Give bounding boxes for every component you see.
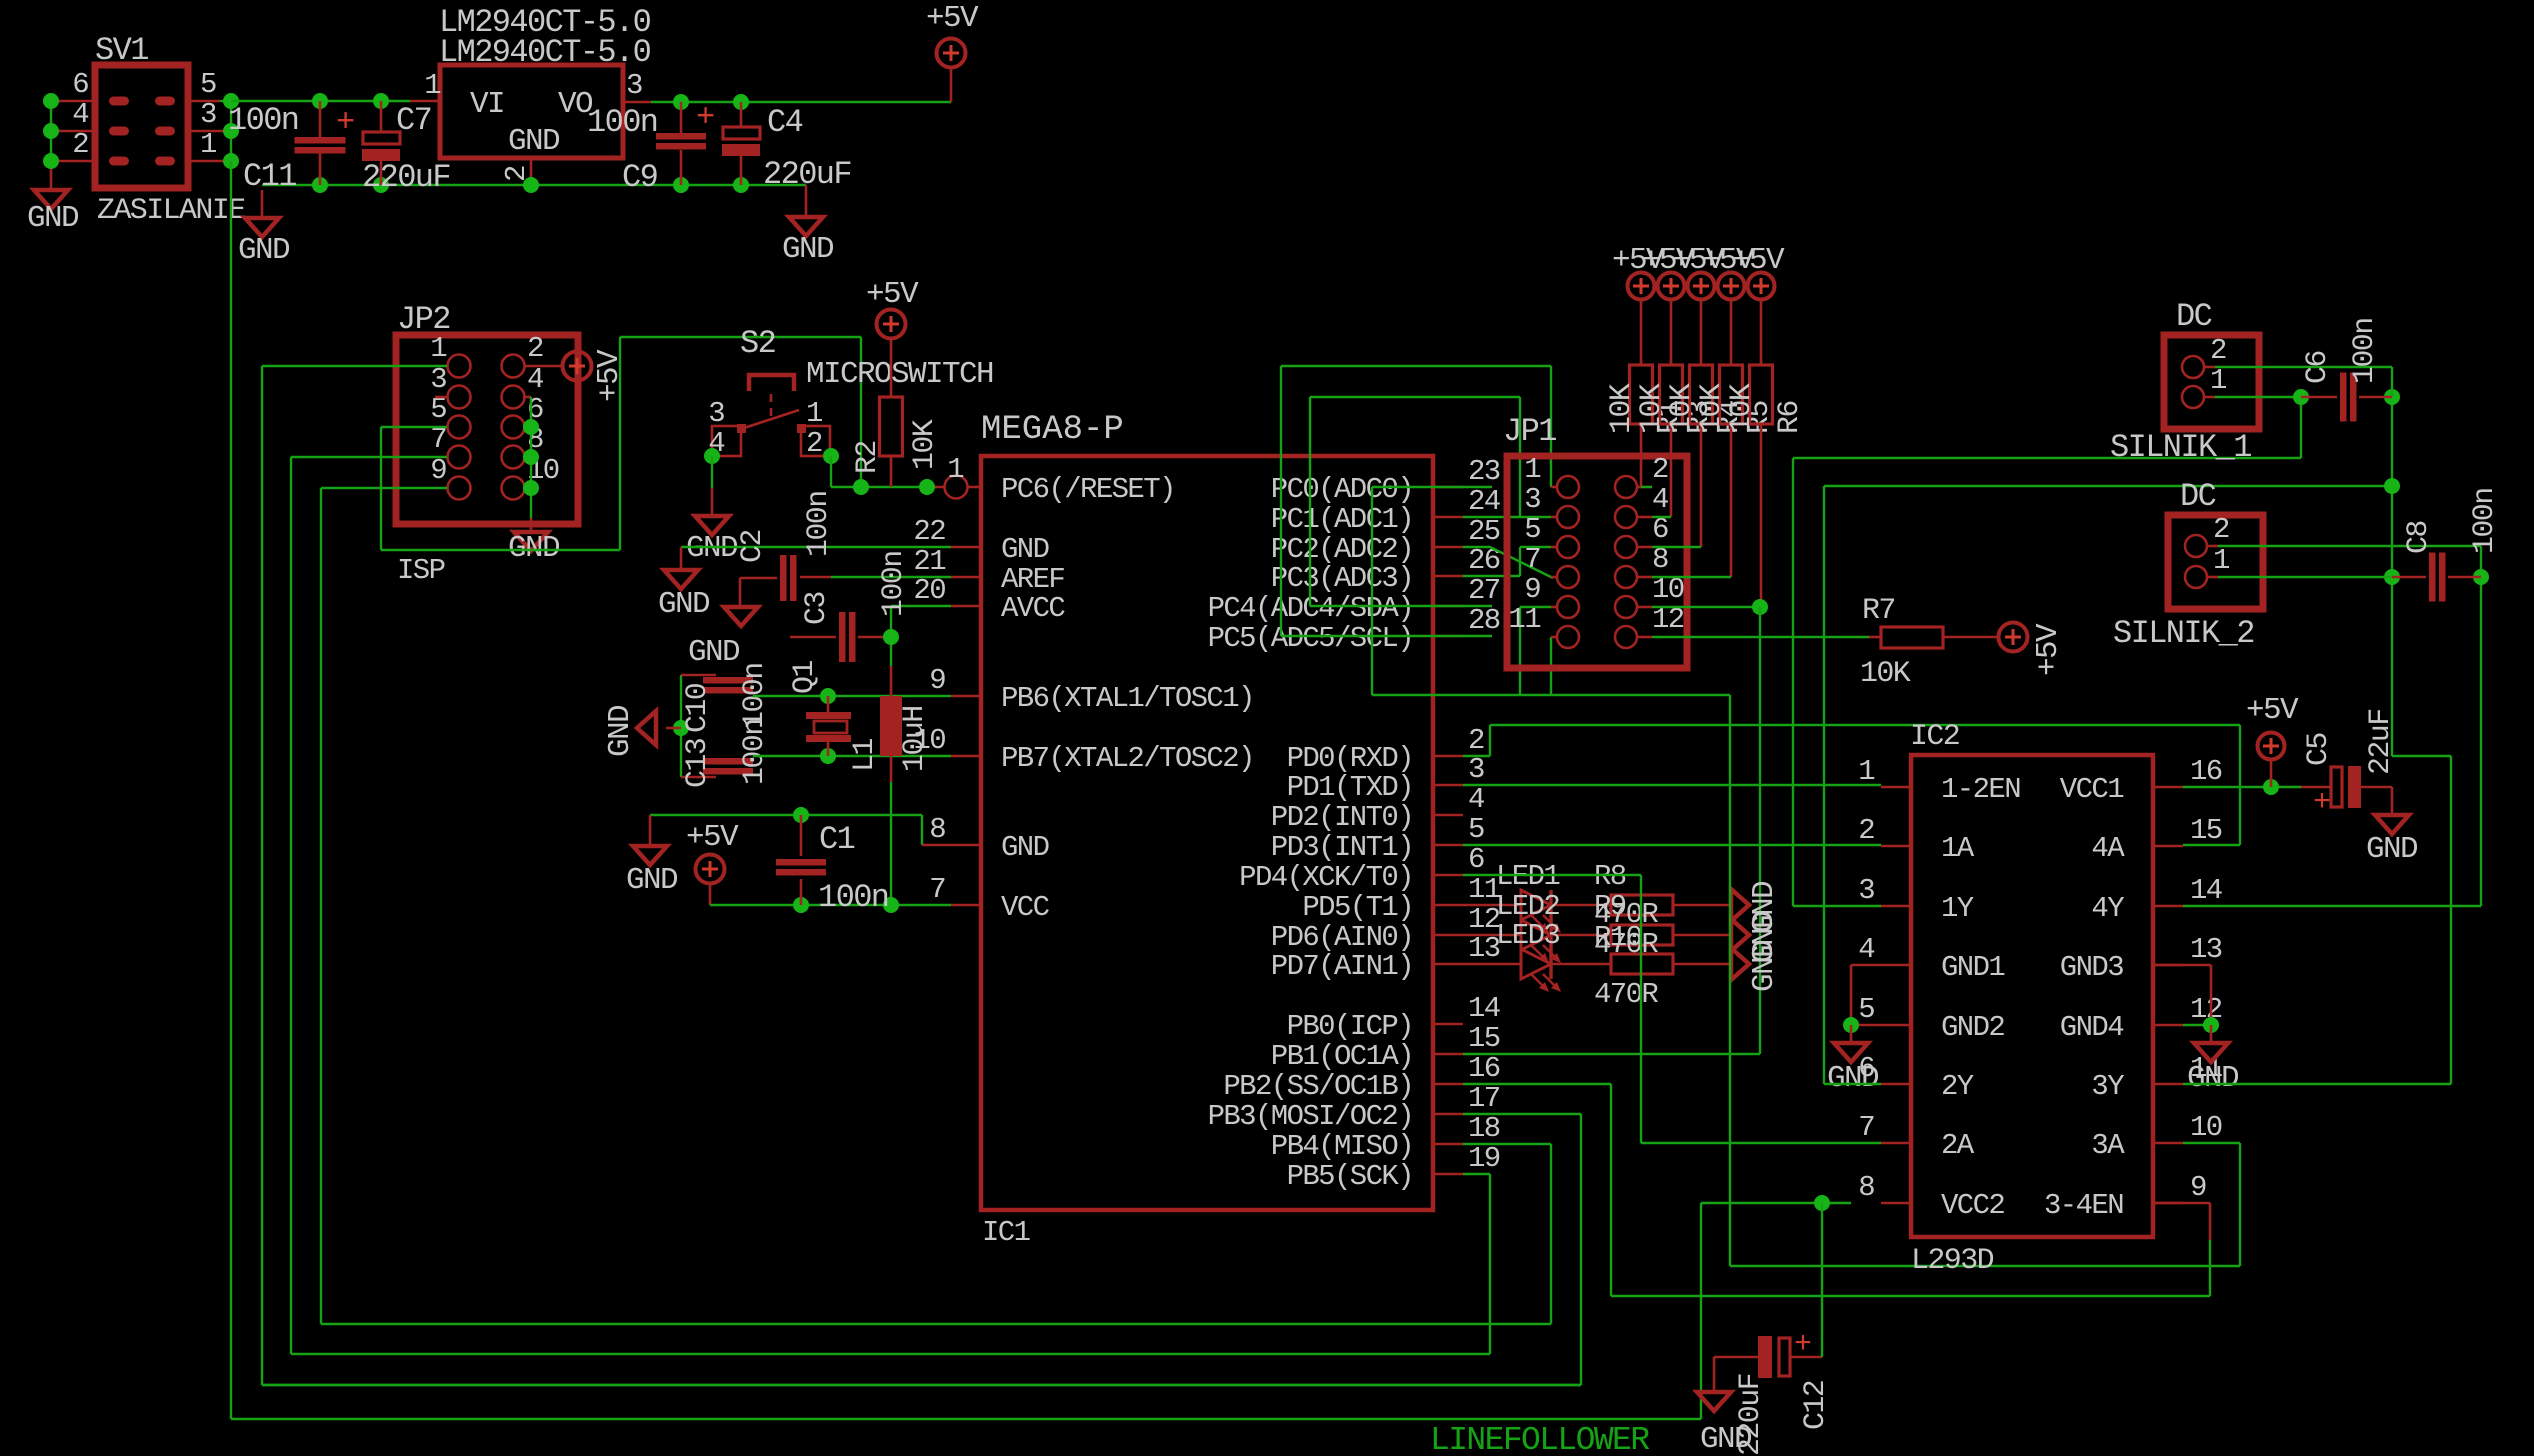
svg-text:14: 14 [2190,874,2222,907]
svg-text:3: 3 [1468,753,1484,786]
wire JP1 pin11 drop [1550,637,1552,695]
wire SILNIK_2 pin2 [2207,545,2218,548]
resistor R10 470R [1551,963,1611,966]
IC1 left pin AREF (21) [951,576,981,579]
svg-text:GND: GND [686,531,738,566]
svg-text:ZASILANIE: ZASILANIE [97,194,245,228]
IC2 left pin 2Y (6) [1881,1083,1911,1086]
svg-text:VCC2: VCC2 [1941,1189,2004,1222]
svg-text:+: + [696,99,714,136]
wire IC1 GND pin22 row [681,546,951,548]
IC1 right pin PD1(TXD) (3) [1433,784,1463,787]
svg-text:2A: 2A [1941,1129,1975,1162]
svg-text:+: + [2313,786,2330,820]
svg-text:C8: C8 [2402,521,2436,554]
svg-text:4Y: 4Y [2091,892,2124,925]
ground GND (C11 area) [245,218,279,237]
svg-text:4: 4 [1468,783,1484,816]
wire 2Y to SILNIK_1 pin2 net [1824,1083,1881,1085]
svg-text:220uF: 220uF [763,156,851,193]
ground GND (C12) [1697,1392,1731,1411]
IC1 right pin PD6(AIN0) (12) [1433,934,1463,937]
svg-text:GND: GND [27,201,79,236]
svg-text:8: 8 [1858,1171,1874,1204]
svg-text:GND4: GND4 [2060,1011,2123,1044]
IC1 right pin PB3(MOSI/OC2) (17) [1433,1113,1463,1116]
svg-text:C5: C5 [2302,733,2336,766]
svg-text:PB6(XTAL1/TOSC1): PB6(XTAL1/TOSC1) [1001,682,1254,715]
svg-text:VCC1: VCC1 [2060,773,2123,806]
supply +5V (pullup R6) [1748,273,1775,300]
LED LED3 [1463,963,1521,966]
svg-text:PC6(/RESET): PC6(/RESET) [1001,473,1175,506]
svg-text:3: 3 [626,69,642,102]
svg-text:JP1: JP1 [1503,413,1556,450]
svg-text:1: 1 [2213,544,2229,577]
svg-text:C2: C2 [736,530,770,563]
svg-text:3Y: 3Y [2091,1070,2124,1103]
svg-text:100n: 100n [877,551,911,617]
svg-text:PC1(ADC1): PC1(ADC1) [1271,503,1413,536]
wire PC0 branch down [1371,487,1373,695]
svg-text:470R: 470R [1594,978,1658,1011]
svg-text:VI: VI [470,87,504,122]
svg-text:1: 1 [2210,364,2226,397]
svg-text:C7: C7 [396,102,431,139]
svg-text:100n: 100n [2468,488,2502,554]
svg-text:4: 4 [527,363,543,396]
wire PB2 to 3-4EN [1463,1083,1611,1085]
svg-text:1: 1 [1858,755,1874,788]
IC2 right pin 3A (10) [2153,1142,2183,1145]
svg-text:PD3(INT1): PD3(INT1) [1271,831,1413,864]
svg-text:3: 3 [1524,483,1540,516]
svg-text:+: + [336,104,354,141]
svg-text:PC0(ADC0): PC0(ADC0) [1271,473,1413,506]
resistor R4 10K [1700,299,1703,365]
LED LED1 [1463,904,1521,907]
resistor R3 10K [1670,299,1673,365]
svg-text:1-2EN: 1-2EN [1941,773,2020,806]
wire PC3 to pin5 route [1463,575,1520,577]
wire PD3 to 1A [1463,844,1881,846]
IC1 right pin PB5(SCK) (19) [1433,1173,1463,1176]
wire GND3/GND4 to ground [2153,964,2211,967]
wire R6/pin10 to PB1 [1752,599,1768,615]
svg-text:3A: 3A [2091,1129,2125,1162]
svg-text:C6: C6 [2301,351,2335,384]
wire PC5 to JP1 pin1 (top route) [1281,365,1551,367]
svg-text:GND: GND [1827,1061,1879,1096]
wire JP2 pin9 (MISO) [321,487,447,489]
wire JP2 pin5 RESET route [380,427,382,550]
svg-text:1: 1 [424,69,440,102]
svg-text:20: 20 [913,574,945,607]
ground GND (R10) [1731,948,1749,980]
wire SILNIK_1 pin1 [2204,396,2215,399]
capacitor C1 100n [800,815,803,856]
wire PD4 to 2A [1463,874,1641,876]
wire JP2 pin7 (SCK) [291,456,447,458]
IC2 right pin 3-4EN (9) [2153,1202,2183,1205]
svg-text:MEGA8-P: MEGA8-P [981,411,1124,449]
svg-text:14: 14 [1468,992,1500,1025]
IC1 left pin PB6(XTAL1/TOSC1) (9) [951,695,981,698]
svg-text:GND3: GND3 [2060,951,2123,984]
capacitor C5 22uF [2301,786,2332,789]
svg-text:IC2: IC2 [1910,720,1959,754]
IC2 right pin GND4 (12) [2153,1024,2183,1027]
svg-text:2: 2 [2213,513,2229,546]
svg-text:9: 9 [929,664,945,697]
svg-text:PB1(OC1A): PB1(OC1A) [1271,1040,1413,1073]
IC1 right pin PD4(XCK/T0) (6) [1433,874,1463,877]
svg-text:11: 11 [1508,603,1540,636]
svg-text:PB4(MISO): PB4(MISO) [1271,1130,1413,1163]
IC1 right pin PD5(T1) (11) [1433,904,1463,907]
svg-text:R7: R7 [1862,594,1895,628]
svg-text:2Y: 2Y [1941,1070,1974,1103]
svg-text:4A: 4A [2091,832,2125,865]
svg-text:PD2(INT0): PD2(INT0) [1271,801,1413,834]
svg-text:16: 16 [2190,755,2222,788]
svg-text:LINEFOLLOWER: LINEFOLLOWER [1430,1422,1649,1456]
IC2 right pin 4A (15) [2153,845,2183,848]
capacitor C11 100n [319,101,322,138]
supply +5V (VCC1) [2183,786,2301,788]
svg-text:2: 2 [2210,334,2226,367]
svg-text:100n: 100n [587,104,657,141]
wire bottom bus joints [262,1384,1581,1386]
wire GND pin8 row [650,814,922,816]
ground GND (pin22) [664,570,698,589]
IC2 left pin GND1 (4) [1881,964,1911,967]
capacitor C8 100n [2392,576,2426,579]
IC1 left pin AVCC (20) [951,605,981,608]
svg-text:GND: GND [603,705,638,757]
inductor L1 10uH [890,666,893,698]
svg-text:SILNIK_2: SILNIK_2 [2113,615,2254,652]
wire PB5 (SCK) down [1463,1173,1490,1175]
svg-text:IC1: IC1 [982,1216,1030,1249]
wire PC2 diagonal to pin7 [1463,546,1490,548]
svg-text:2: 2 [527,332,543,365]
wire SV1 right pins (battery +) bus [188,100,220,103]
ground GND (C4 area) [789,217,823,236]
capacitor C3 100n (AVCC) [790,636,836,639]
svg-text:4: 4 [72,98,88,131]
supply +5V (pullup R3) [1658,273,1685,300]
svg-text:10uH: 10uH [898,706,932,772]
svg-text:1: 1 [200,128,216,161]
svg-text:5: 5 [200,68,216,101]
IC2 right pin VCC1 (16) [2153,786,2183,789]
svg-text:3: 3 [200,98,216,131]
wire S2 pin2 to reset net [823,448,839,464]
wire PC5 row [1281,635,1492,637]
svg-text:MICROSWITCH: MICROSWITCH [806,357,993,392]
svg-text:R6: R6 [1773,401,1807,434]
svg-text:1Y: 1Y [1941,892,1974,925]
IC1 right pin PC4(ADC4/SDA) (27) [1433,605,1463,608]
capacitor C9 100n [680,102,683,134]
svg-text:PD5(T1): PD5(T1) [1302,891,1413,924]
resistor R6 10K [1760,299,1763,365]
resistor R7 10K [1869,636,1881,639]
ground GND (xtal caps) [637,711,656,745]
svg-text:GND: GND [508,124,560,159]
LED LED2 [1463,934,1521,937]
svg-text:GND: GND [238,233,290,268]
svg-text:R8: R8 [1594,860,1626,893]
svg-text:GND: GND [2187,1061,2239,1096]
wire regulator GND pin2 down [530,158,533,185]
wire +batt rail to regulator VI [231,100,410,102]
IC1 right pin PD0(RXD) (2) [1433,755,1463,758]
IC1 right pin PC2(ADC2) (25) [1433,546,1463,549]
svg-text:+5V: +5V [2246,693,2299,728]
svg-text:220uF: 220uF [1734,1374,1768,1456]
IC1 right pin PC3(ADC3) (26) [1433,575,1463,578]
svg-text:17: 17 [1468,1082,1500,1115]
wire JP2 pin1 (MOSI) [262,365,447,367]
svg-text:4: 4 [1858,933,1874,966]
IC1 right pin PD2(INT0) (4) [1433,814,1463,817]
svg-text:GND2: GND2 [1941,1011,2004,1044]
svg-text:+5V: +5V [1732,243,1785,278]
svg-text:GND: GND [1001,831,1049,864]
IC1 right pin PC1(ADC1) (24) [1433,516,1463,519]
svg-text:10K: 10K [1605,383,1639,434]
wire 3-4EN pin9 [2153,1202,2183,1205]
wire battery+ long vertical to bottom bus [230,161,232,1419]
IC1 right pin PB2(SS/OC1B) (16) [1433,1083,1463,1086]
svg-text:9: 9 [2190,1171,2206,1204]
svg-text:GND: GND [688,635,740,670]
resistor R1 10K [1640,299,1643,365]
svg-text:C4: C4 [767,104,803,141]
svg-text:15: 15 [2190,814,2222,847]
wire PC1 row [1463,516,1520,518]
svg-text:8: 8 [929,813,945,846]
wire 4Y to SILNIK_2 pin2 net [2183,905,2481,907]
svg-text:100n: 100n [802,491,836,557]
wire SILNIK_2 pin1 [2207,576,2218,579]
capacitor C4 220uF [740,102,743,127]
svg-text:+5V: +5V [2031,623,2066,676]
svg-text:3-4EN: 3-4EN [2044,1189,2123,1222]
svg-text:C13: C13 [681,738,715,788]
svg-text:+5V: +5V [926,1,979,36]
svg-text:10K: 10K [1635,383,1669,434]
ground GND (JP2) [514,532,548,551]
svg-text:PD1(TXD): PD1(TXD) [1287,771,1413,804]
capacitor C7 220uF [380,101,383,132]
resistor R9 470R [1551,934,1611,937]
svg-text:28: 28 [1468,604,1500,637]
svg-text:1: 1 [430,332,446,365]
supply +5V (JP2 pin2) [525,365,563,368]
supply +5V (R2) [877,310,906,339]
supply +5V (pullup R5) [1718,273,1745,300]
wire pin9/11 to bottom [1520,606,1551,608]
wire ISP MOSI vertical [261,366,263,1385]
IC2 right pin 4Y (14) [2153,905,2183,908]
svg-text:VCC: VCC [1001,891,1050,924]
svg-text:9: 9 [1524,573,1540,606]
svg-text:PB5(SCK): PB5(SCK) [1287,1160,1413,1193]
wire pin12 to R7 [1652,636,1869,638]
svg-text:220uF: 220uF [362,159,450,196]
svg-text:10: 10 [2190,1111,2222,1144]
svg-text:PD4(XCK/T0): PD4(XCK/T0) [1239,861,1413,894]
svg-text:DC: DC [2180,478,2216,515]
wire JP1 pin9 drop [1519,607,1521,695]
svg-text:3: 3 [430,363,446,396]
svg-text:16: 16 [1468,1052,1500,1085]
svg-text:7: 7 [1858,1111,1874,1144]
svg-text:470R: 470R [1594,928,1658,961]
svg-text:C3: C3 [800,592,834,625]
svg-text:C1: C1 [819,821,855,858]
IC2 left pin 1Y (3) [1881,905,1911,908]
svg-text:7: 7 [929,873,945,906]
IC2 right pin GND3 (13) [2153,964,2183,967]
ground GND (C5) [2375,815,2409,834]
IC1 right pin PC0(ADC0) (23) [1433,486,1463,489]
IC1 right pin PD3(INT1) (5) [1433,844,1463,847]
IC2 left pin 2A (7) [1881,1142,1911,1145]
wire PB4 (MISO) down [1463,1143,1551,1145]
svg-text:GND: GND [626,863,678,898]
svg-text:S2: S2 [740,325,775,362]
svg-text:GND: GND [782,232,834,267]
wire JP2 pin5 (RESET) [381,426,447,428]
svg-text:1: 1 [947,453,963,486]
svg-text:10K: 10K [1665,383,1699,434]
IC1 right pin PD7(AIN1) (13) [1433,963,1463,966]
wire S2 pin4 to GND [704,448,720,464]
IC1 right pin PB0(ICP) (14) [1433,1023,1463,1026]
IC1 left pin GND (8) [951,844,981,847]
svg-text:PC5(ADC5/SCL): PC5(ADC5/SCL) [1208,622,1413,655]
svg-text:10K: 10K [908,419,942,470]
svg-text:PB0(ICP): PB0(ICP) [1287,1010,1413,1043]
supply +5V (pullup R1) [1628,273,1655,300]
IC1 right pin PB1(OC1A) (15) [1433,1053,1463,1056]
wire PB3 (MOSI) down [1463,1113,1581,1115]
capacitor C6 100n [2293,389,2309,405]
svg-text:C9: C9 [622,159,657,196]
wire PD1 to 1-2EN [1463,784,1881,786]
svg-text:C11: C11 [243,158,296,195]
svg-text:9: 9 [430,454,446,487]
ground GND (S2) [695,516,729,535]
resistor R5 10K [1730,299,1733,365]
svg-text:LED3: LED3 [1496,919,1559,952]
svg-text:R2: R2 [851,441,885,474]
svg-text:100n: 100n [738,719,772,785]
svg-text:DC: DC [2176,298,2212,335]
wire VCC2 net [1701,1202,1851,1204]
svg-text:PB2(SS/OC1B): PB2(SS/OC1B) [1223,1070,1413,1103]
svg-text:LED1: LED1 [1496,860,1559,893]
svg-text:1: 1 [1524,453,1540,486]
wire JP2 even pins to GND [525,396,531,399]
IC2 left pin VCC2 (8) [1881,1202,1911,1205]
IC2 left pin 1-2EN (1) [1881,786,1911,789]
svg-text:3: 3 [1858,874,1874,907]
IC1 right pin PC5(ADC5/SCL) (28) [1433,635,1463,638]
wire ISP MISO vertical [320,488,322,1324]
supply +5V (R7) [1999,623,2028,652]
svg-text:10K: 10K [1725,383,1759,434]
wire GND rail under regulator [262,184,806,186]
svg-text:19: 19 [1468,1142,1500,1175]
svg-text:5: 5 [1858,993,1874,1026]
svg-text:Q1: Q1 [788,661,822,694]
wire GND1/GND2 to ground [1851,964,1881,967]
capacitor C2 100n (AREF) [740,577,777,580]
ground GND (IC2 left) [1834,1043,1868,1062]
svg-text:4: 4 [1652,483,1668,516]
svg-text:+5V: +5V [866,277,919,312]
svg-text:GND: GND [2366,832,2418,867]
svg-text:27: 27 [1468,574,1500,607]
capacitor C12 220uF [1758,1336,1772,1378]
wire VCC pin7 row [710,904,951,906]
svg-text:PB3(MOSI/OC2): PB3(MOSI/OC2) [1208,1100,1413,1133]
svg-text:C10: C10 [681,683,715,733]
wire PB6 XTAL1 row [753,695,951,697]
capacitors C13 C10 100n (xtal) [680,675,682,777]
svg-text:6: 6 [72,68,88,101]
svg-text:+5V: +5V [686,820,739,855]
svg-text:C12: C12 [1799,1381,1833,1430]
ground GND (R8) [1731,889,1749,921]
wire +5V output rail [651,101,951,103]
svg-text:5: 5 [1468,813,1484,846]
supply +5V (top) [950,67,953,102]
ground GND (SV1) [34,190,68,209]
svg-text:7: 7 [1524,543,1540,576]
svg-text:SILNIK_1: SILNIK_1 [2110,429,2251,466]
wire JP2 pin3 stub [435,396,447,399]
svg-text:5: 5 [1524,513,1540,546]
ground GND (C1) [633,846,667,865]
supply +5V (VCC) [696,855,725,884]
wire 3Y net [2183,1083,2451,1085]
resistor R8 470R [1551,904,1611,907]
svg-text:18: 18 [1468,1112,1500,1145]
ground GND (R9) [1731,919,1749,951]
svg-text:2: 2 [72,128,88,161]
svg-text:PC3(ADC3): PC3(ADC3) [1271,562,1413,595]
wire PB7 XTAL2 row [753,755,951,757]
svg-text:24: 24 [1468,485,1500,518]
svg-text:GND: GND [1001,533,1049,566]
IC2 right pin 3Y (11) [2153,1083,2183,1086]
supply +5V (pullup R4) [1688,273,1715,300]
svg-text:22: 22 [913,515,945,548]
wire ISP SCK vertical [290,457,292,1354]
ground GND (IC2 right) [2194,1043,2228,1062]
IC2 left pin GND2 (5) [1881,1024,1911,1027]
svg-text:13: 13 [2190,933,2222,966]
IC1 left pin VCC (7) [951,904,981,907]
svg-text:GND: GND [658,587,710,622]
svg-text:2: 2 [1652,453,1668,486]
